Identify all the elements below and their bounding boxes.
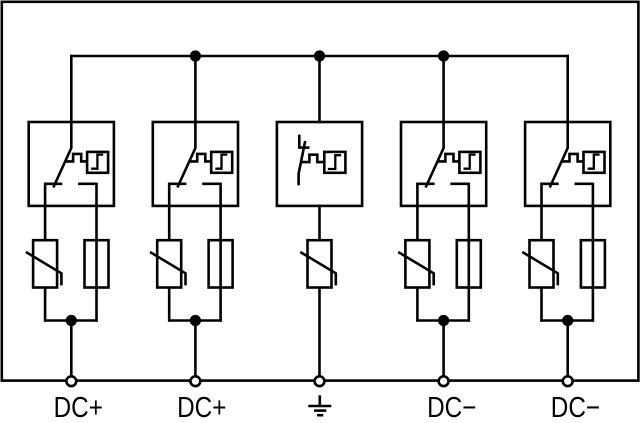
wire: bottom connector branch 2 (DC+) xyxy=(168,319,222,322)
wire: top lead branch 4 (DC-) xyxy=(442,55,445,149)
switch blade branch 5 (DC-) xyxy=(550,148,568,188)
terminal circle branch 5 xyxy=(563,376,573,386)
right contact branch 1 (DC+) xyxy=(78,183,96,186)
wire through fuse branch 4 (DC-) xyxy=(467,183,470,322)
step glyph in monitor branch 5 (DC-) xyxy=(588,155,600,169)
wire: top lead branch 5 (DC-) xyxy=(566,55,569,149)
svg-text:DC+: DC+ xyxy=(54,392,103,423)
wire: top lead branch 3 (PE) xyxy=(318,55,321,123)
varistor diagonal branch 1 (DC+) xyxy=(26,252,62,285)
switch blade branch 4 (DC-) xyxy=(426,148,444,188)
varistor branch 5 (DC-) xyxy=(530,240,554,287)
terminal circle branch 1 xyxy=(66,376,76,386)
terminal circle branch 3 xyxy=(315,376,325,386)
wire junction to terminal branch 2 (DC+) xyxy=(194,321,197,377)
fuse branch 1 (DC+) xyxy=(85,240,109,287)
status monitor square branch 4 (DC-) xyxy=(459,152,480,173)
thermal trip link (pulse wave) branch 1 (DC+) xyxy=(65,154,87,162)
wire varistor to junction branch 2 (DC+) xyxy=(168,288,171,322)
thermal trip link (pulse wave) branch 4 (DC-) xyxy=(437,154,459,162)
SPD disconnector box branch 4 (DC-) xyxy=(401,122,486,206)
junction dot branch 5 (DC-) xyxy=(562,315,573,326)
junction dot branch 4 (DC-) xyxy=(438,315,449,326)
wire through fuse branch 5 (DC-) xyxy=(592,183,595,322)
left contact + wire to varistor branch 5 (DC-) xyxy=(542,184,559,242)
step glyph in monitor branch 4 (DC-) xyxy=(464,155,476,169)
wire junction to terminal branch 5 (DC-) xyxy=(566,321,569,377)
junction dot branch 1 (DC+) xyxy=(66,315,77,326)
junction dot branch 2 (DC+) xyxy=(190,315,201,326)
junction dot on bus, branch 2 xyxy=(190,50,201,61)
left contact + wire to varistor branch 4 (DC-) xyxy=(417,184,434,242)
ground symbol xyxy=(308,395,331,415)
right contact branch 5 (DC-) xyxy=(575,183,593,186)
wire varistor to junction branch 1 (DC+) xyxy=(44,288,47,322)
varistor branch 2 (DC+) xyxy=(157,240,181,287)
switch blade branch 1 (DC+) xyxy=(53,148,71,188)
terminal circle branch 4 xyxy=(439,376,449,386)
wire: bottom connector branch 4 (DC-) xyxy=(416,319,470,322)
switch blade branch 2 (DC+) xyxy=(177,148,195,188)
step glyph in monitor branch 2 (DC+) xyxy=(215,155,227,169)
junction dot on bus, branch 4 xyxy=(438,50,449,61)
status monitor square branch 2 (DC+) xyxy=(211,152,232,173)
fuse branch 4 (DC-) xyxy=(457,240,481,287)
symbol top lead branch 3 (PE) xyxy=(298,135,301,148)
status monitor square branch 5 (DC-) xyxy=(584,152,605,173)
wire: top lead branch 2 (DC+) xyxy=(194,55,197,149)
wire: bottom connector branch 5 (DC-) xyxy=(540,319,594,322)
wire: box to varistor branch 3 (PE) xyxy=(318,205,321,242)
junction dot on bus, branch 3 xyxy=(314,50,325,61)
step glyph in monitor branch 1 (DC+) xyxy=(91,155,103,169)
fuse branch 2 (DC+) xyxy=(209,240,233,287)
status monitor square branch 3 (PE) xyxy=(324,152,345,173)
terminal circle branch 2 xyxy=(191,376,201,386)
varistor branch 4 (DC-) xyxy=(405,240,429,287)
wire through fuse branch 1 (DC+) xyxy=(95,183,98,322)
wire varistor to junction branch 5 (DC-) xyxy=(540,288,543,322)
thermal trip link (pulse wave) branch 2 (DC+) xyxy=(189,154,211,162)
varistor diagonal branch 2 (DC+) xyxy=(150,252,186,285)
SPD disconnector box branch 3 (PE) xyxy=(277,122,362,206)
right contact branch 2 (DC+) xyxy=(202,183,220,186)
svg-text:DC−: DC− xyxy=(551,392,600,423)
blade branch 3 (PE) xyxy=(299,141,306,185)
step glyph in monitor branch 3 (PE) xyxy=(328,155,341,169)
wire junction to terminal branch 1 (DC+) xyxy=(70,321,73,377)
contact bar branch 3 (PE) xyxy=(298,146,309,149)
right contact branch 4 (DC-) xyxy=(450,183,468,186)
SPD disconnector box branch 1 (DC+) xyxy=(29,122,114,206)
varistor branch 3 (PE) xyxy=(308,240,332,287)
wire junction to terminal branch 4 (DC-) xyxy=(442,321,445,377)
varistor branch 1 (DC+) xyxy=(33,240,57,287)
left contact + wire to varistor branch 1 (DC+) xyxy=(45,184,62,242)
wire varistor to terminal branch 3 (PE) xyxy=(318,288,321,377)
thermal trip link (pulse wave) branch 5 (DC-) xyxy=(562,154,584,162)
svg-text:DC+: DC+ xyxy=(177,392,226,423)
wire through fuse branch 2 (DC+) xyxy=(219,183,222,322)
varistor diagonal branch 4 (DC-) xyxy=(398,252,434,285)
left contact + wire to varistor branch 2 (DC+) xyxy=(169,184,186,242)
wire varistor to junction branch 4 (DC-) xyxy=(416,288,419,322)
status monitor square branch 1 (DC+) xyxy=(87,152,108,173)
varistor diagonal branch 5 (DC-) xyxy=(522,252,558,285)
wire: top lead branch 1 (DC+) xyxy=(70,55,73,149)
fuse branch 5 (DC-) xyxy=(581,240,605,287)
wire: bottom connector branch 1 (DC+) xyxy=(44,319,98,322)
varistor diagonal branch 3 (PE) xyxy=(300,252,336,285)
svg-text:DC−: DC− xyxy=(427,392,476,423)
thermal trip link (pulse wave) branch 3 (PE) xyxy=(301,155,324,162)
wire: top bus xyxy=(70,55,569,58)
SPD disconnector box branch 5 (DC-) xyxy=(525,122,610,206)
SPD disconnector box branch 2 (DC+) xyxy=(153,122,238,206)
